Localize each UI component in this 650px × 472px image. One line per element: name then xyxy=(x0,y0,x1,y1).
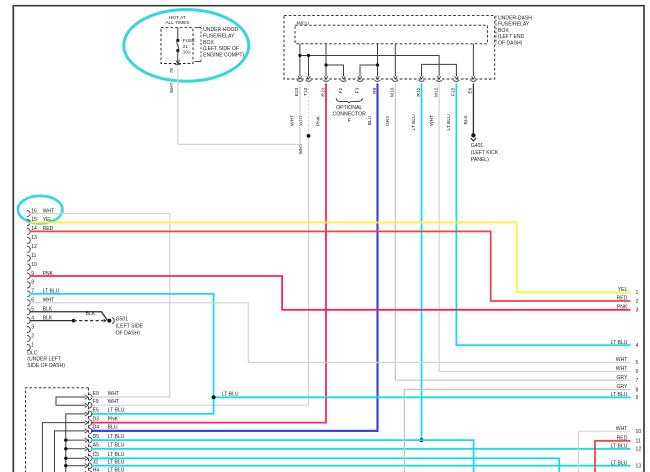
svg-text:D5: D5 xyxy=(93,434,100,440)
svg-text:LT BLU: LT BLU xyxy=(446,114,452,131)
svg-text:10A: 10A xyxy=(183,50,192,55)
svg-text:UNDER-DASH: UNDER-DASH xyxy=(498,15,532,21)
svg-text:RED: RED xyxy=(617,296,628,302)
svg-text:12: 12 xyxy=(31,244,37,250)
svg-text:LT BLU: LT BLU xyxy=(108,443,125,449)
svg-text:ALL TIMES: ALL TIMES xyxy=(165,20,189,26)
svg-text:LT BLU: LT BLU xyxy=(108,408,125,414)
svg-text:UNDER-HOOD: UNDER-HOOD xyxy=(203,27,238,33)
svg-text:BLU: BLU xyxy=(108,425,118,431)
svg-text:GRY: GRY xyxy=(616,384,628,390)
svg-text:G401: G401 xyxy=(471,143,484,149)
svg-text:11: 11 xyxy=(636,439,641,445)
svg-text:ENGINE COMPT): ENGINE COMPT) xyxy=(203,52,244,58)
svg-text:BOX: BOX xyxy=(498,28,509,34)
svg-text:WHT: WHT xyxy=(298,115,304,126)
svg-text:F: F xyxy=(348,118,351,124)
svg-text:21: 21 xyxy=(183,44,189,49)
svg-text:WHT: WHT xyxy=(298,143,304,154)
svg-text:G501: G501 xyxy=(116,317,129,323)
svg-text:(LEFT END: (LEFT END xyxy=(498,34,525,40)
svg-text:OF DASH): OF DASH) xyxy=(498,41,523,47)
svg-text:GRY: GRY xyxy=(385,115,391,126)
svg-text:LT BLU: LT BLU xyxy=(611,392,628,398)
svg-text:LT BLU: LT BLU xyxy=(108,452,125,458)
svg-text:WHT: WHT xyxy=(616,366,628,372)
svg-text:OF DASH): OF DASH) xyxy=(116,330,141,336)
svg-text:E5: E5 xyxy=(93,408,99,414)
svg-text:WHT: WHT xyxy=(429,115,435,126)
svg-text:LT BLU: LT BLU xyxy=(611,460,628,466)
svg-text:LT BLU: LT BLU xyxy=(611,444,628,450)
svg-text:F3: F3 xyxy=(354,87,360,93)
svg-text:10: 10 xyxy=(636,429,642,435)
svg-text:WHT: WHT xyxy=(108,391,120,397)
svg-text:11: 11 xyxy=(31,253,36,259)
svg-text:E9: E9 xyxy=(93,391,99,397)
svg-text:5: 5 xyxy=(636,360,639,366)
svg-text:A5: A5 xyxy=(93,443,99,449)
svg-text:CONNECTOR: CONNECTOR xyxy=(333,112,367,118)
svg-text:SIDE OF DASH): SIDE OF DASH) xyxy=(27,363,65,369)
svg-text:LT BLU: LT BLU xyxy=(108,467,125,472)
svg-text:4: 4 xyxy=(636,343,639,349)
svg-text:DLC: DLC xyxy=(27,350,38,356)
svg-text:FUSE: FUSE xyxy=(183,38,195,43)
svg-text:LT BLU: LT BLU xyxy=(411,114,417,131)
svg-text:8: 8 xyxy=(31,280,34,286)
svg-text:9: 9 xyxy=(636,395,639,401)
svg-text:13: 13 xyxy=(31,235,37,241)
svg-text:LT BLU: LT BLU xyxy=(611,340,628,346)
svg-text:FUSE/RELAY: FUSE/RELAY xyxy=(203,34,235,40)
svg-text:OPTIONAL: OPTIONAL xyxy=(336,105,362,111)
svg-text:F2: F2 xyxy=(338,87,344,93)
svg-text:FUSE/RELAY: FUSE/RELAY xyxy=(498,22,530,28)
svg-text:3: 3 xyxy=(636,308,639,314)
svg-text:BLU: BLU xyxy=(367,115,373,125)
svg-text:BOX: BOX xyxy=(203,40,214,46)
svg-text:3: 3 xyxy=(31,324,34,330)
svg-text:13: 13 xyxy=(636,464,642,470)
svg-text:C5: C5 xyxy=(93,452,100,458)
svg-text:78: 78 xyxy=(169,68,174,74)
svg-text:WHT: WHT xyxy=(108,399,120,405)
svg-text:PNK: PNK xyxy=(316,115,322,126)
svg-text:LT BLU: LT BLU xyxy=(222,391,239,397)
svg-text:2: 2 xyxy=(636,299,639,305)
svg-text:LT BLU: LT BLU xyxy=(108,434,125,440)
svg-text:F9: F9 xyxy=(93,399,99,405)
svg-text:PANEL): PANEL) xyxy=(471,157,489,163)
svg-text:BLK: BLK xyxy=(463,115,469,125)
svg-text:D4: D4 xyxy=(93,425,100,431)
svg-text:8: 8 xyxy=(636,387,639,393)
svg-text:2: 2 xyxy=(31,333,34,339)
svg-text:PNK: PNK xyxy=(108,416,119,422)
svg-text:LT BLU: LT BLU xyxy=(108,460,125,466)
svg-text:RED: RED xyxy=(617,436,628,442)
svg-text:MICU: MICU xyxy=(297,20,310,26)
svg-text:10: 10 xyxy=(31,262,37,268)
svg-text:H4: H4 xyxy=(93,467,100,472)
svg-text:1: 1 xyxy=(636,290,639,296)
svg-text:WHT: WHT xyxy=(169,82,174,93)
svg-text:(LEFT KICK: (LEFT KICK xyxy=(471,150,499,156)
svg-text:WHT: WHT xyxy=(616,357,628,363)
svg-text:PNK: PNK xyxy=(617,305,628,311)
svg-text:(LEFT SIDE OF: (LEFT SIDE OF xyxy=(203,46,239,52)
svg-text:HOT AT: HOT AT xyxy=(169,15,186,21)
svg-text:WHT: WHT xyxy=(290,115,296,126)
svg-text:GRY: GRY xyxy=(616,375,628,381)
svg-text:YEL: YEL xyxy=(618,287,628,293)
svg-text:D3: D3 xyxy=(93,416,100,422)
svg-text:12: 12 xyxy=(636,447,642,453)
svg-text:1: 1 xyxy=(31,342,34,348)
svg-text:(UNDER LEFT: (UNDER LEFT xyxy=(27,357,61,363)
svg-text:WHT: WHT xyxy=(616,426,628,432)
svg-text:(LEFT SIDE: (LEFT SIDE xyxy=(116,324,144,330)
svg-text:6: 6 xyxy=(636,369,639,375)
svg-text:J2: J2 xyxy=(93,460,99,466)
svg-text:BLK: BLK xyxy=(86,311,96,317)
svg-text:7: 7 xyxy=(636,378,639,384)
